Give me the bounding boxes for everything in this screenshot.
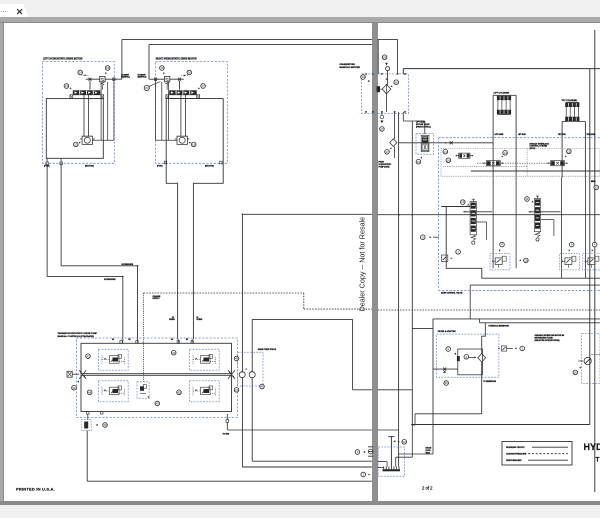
svg-text:B2: B2 bbox=[186, 339, 188, 341]
page 2 bbox=[378, 23, 600, 502]
svg-text:(FRONT & PWLL): (FRONT & PWLL) bbox=[416, 126, 431, 128]
arrowhead to charge relief bbox=[148, 396, 150, 398]
servo piston glyph bbox=[102, 354, 125, 364]
relief valve arrow bbox=[166, 78, 169, 80]
svg-text:16: 16 bbox=[447, 158, 451, 162]
arrowhead to orifice bbox=[84, 75, 86, 77]
svg-text:CHARGE PRESSURE: CHARGE PRESSURE bbox=[506, 453, 527, 456]
svg-text:34: 34 bbox=[361, 75, 365, 79]
circle 9 relief callout bbox=[500, 242, 505, 247]
circle 40 charge relief callout bbox=[155, 401, 160, 406]
tilt port relief b bbox=[583, 254, 600, 270]
svg-text:33: 33 bbox=[145, 86, 149, 90]
charge supply dashed line bbox=[144, 292, 304, 294]
svg-text:MANIFOLD: MANIFOLD bbox=[121, 76, 131, 79]
gear pump dashed box bbox=[238, 352, 263, 386]
port square MOTOR right bbox=[220, 161, 222, 164]
svg-text:47: 47 bbox=[235, 388, 239, 392]
gear pump circle 2 bbox=[249, 372, 255, 378]
case wire a bbox=[167, 82, 169, 140]
lift port relief valve bbox=[490, 254, 510, 270]
pump bottom port 2 bbox=[101, 412, 103, 415]
right hydrostatic drive motor assembly bbox=[149, 44, 227, 339]
circle 36 suction callout bbox=[444, 381, 449, 386]
svg-text:W/34: W/34 bbox=[426, 451, 430, 454]
gear pump 2 out arrow bbox=[251, 370, 253, 372]
circle 14 lift solenoid callout bbox=[503, 151, 508, 156]
valve gallery lowest bbox=[470, 284, 600, 286]
charge relief dashed box bbox=[137, 382, 149, 398]
svg-text:10: 10 bbox=[524, 259, 528, 263]
tab title dots bbox=[1, 11, 8, 13]
svg-text:(MOTOR): (MOTOR) bbox=[205, 166, 214, 168]
manifold port marks bbox=[365, 73, 367, 75]
hose port circle bbox=[386, 67, 390, 71]
lift spool bbox=[470, 199, 476, 240]
svg-text:ORIFICE/BLEED: ORIFICE/BLEED bbox=[506, 460, 522, 462]
wire port into manifold bbox=[387, 70, 389, 85]
arrowhead to orifice bbox=[184, 75, 186, 77]
bypass solenoid dotted sub-edge bbox=[443, 165, 527, 167]
gear pump drive X bbox=[228, 370, 235, 379]
circle 42 front pump servo callout bbox=[86, 354, 91, 359]
toolbar strip bbox=[0, 17, 600, 22]
circle 34 manifold callout bbox=[361, 75, 366, 80]
svg-text:19: 19 bbox=[160, 66, 164, 70]
circle 5 filter callout bbox=[446, 347, 451, 352]
arrowhead to rear pump servo bbox=[196, 358, 198, 360]
svg-text:16: 16 bbox=[192, 143, 196, 147]
svg-text:LIFT BASE: LIFT BASE bbox=[495, 133, 505, 136]
manifold dashed enclosure bbox=[362, 74, 409, 114]
svg-text:44: 44 bbox=[88, 390, 92, 394]
svg-text:17: 17 bbox=[201, 84, 205, 88]
svg-text:15: 15 bbox=[417, 160, 421, 164]
main feed wire across valve bbox=[378, 214, 600, 216]
motor drain wire bbox=[156, 139, 177, 141]
svg-text:LEFT HYDROSTATIC DRIVE MOTOR: LEFT HYDROSTATIC DRIVE MOTOR bbox=[43, 57, 83, 60]
circle 11 spool callout bbox=[525, 197, 530, 202]
svg-text:Dealer Copy -- Not for Resale: Dealer Copy -- Not for Resale bbox=[358, 217, 367, 312]
reservoir corner wire bbox=[432, 319, 434, 425]
page divider bbox=[372, 23, 378, 502]
circle 30 filter callout bbox=[394, 80, 399, 85]
svg-text:50: 50 bbox=[403, 440, 407, 444]
branch to reservoir corner bbox=[412, 327, 433, 329]
gear pump circle 1 bbox=[239, 372, 245, 378]
drain plug tee bbox=[390, 437, 392, 467]
svg-text:MANUAL CONTROLS (STANDARD): MANUAL CONTROLS (STANDARD) bbox=[58, 335, 95, 338]
arrowhead to bypass bbox=[420, 157, 422, 159]
manifold comb teeth bbox=[383, 466, 385, 469]
tilt spool bbox=[534, 196, 540, 237]
page2 left long wires bbox=[398, 112, 400, 467]
circle 7 bbox=[456, 250, 461, 255]
circle 19 relief valve callout bbox=[160, 66, 165, 71]
servo piston glyph bbox=[193, 386, 216, 396]
leader line circle 33 bbox=[149, 82, 160, 87]
bypass valve at divider edge bbox=[377, 86, 380, 92]
right motor dashed enclosure bbox=[156, 62, 228, 164]
case wire c bbox=[155, 79, 157, 140]
case drain wires below gear pump bbox=[241, 378, 243, 467]
svg-text:46: 46 bbox=[260, 385, 264, 389]
svg-text:TILT CYLINDER: TILT CYLINDER bbox=[562, 100, 578, 102]
svg-text:HYD: HYD bbox=[584, 442, 600, 452]
pump top port C bbox=[177, 341, 179, 344]
drain manifold dashed box bbox=[378, 447, 404, 476]
servo piston glyph bbox=[102, 386, 125, 396]
circle 26 fan callout bbox=[573, 370, 578, 375]
circle 44 front pump callout bbox=[87, 390, 92, 395]
browser tab bar bbox=[0, 0, 600, 17]
orifice symbol bbox=[89, 78, 92, 81]
circle 50 drain plug callout bbox=[402, 440, 407, 445]
trunnion input square bbox=[67, 371, 72, 377]
tilt rod leg bbox=[561, 122, 563, 178]
circle 21 valve bank callout bbox=[64, 84, 69, 89]
motor body outline + supply legs to pump bbox=[166, 98, 223, 339]
wire bypass to lift leg bbox=[424, 121, 426, 134]
spool drain port bbox=[472, 241, 475, 244]
fan motor dashed box bbox=[582, 333, 600, 383]
svg-text:TILT ROD: TILT ROD bbox=[558, 134, 566, 136]
manifold drain port with plug bbox=[380, 115, 384, 119]
circle 41 trunnion callout bbox=[72, 385, 77, 390]
svg-text:11: 11 bbox=[525, 197, 528, 201]
valve interior wire tilt b bbox=[585, 178, 587, 279]
wire orifice down to valve bank bbox=[179, 81, 181, 90]
arrowhead to rear pump bbox=[196, 389, 198, 391]
big outer reservoir box page2 bbox=[403, 68, 600, 70]
staircase from filter bbox=[415, 413, 482, 415]
trunnion arrow b bbox=[83, 376, 85, 378]
circle 15 bypass callout bbox=[416, 159, 421, 164]
inlet check glyph bbox=[441, 255, 447, 261]
orifice X on suction bbox=[443, 368, 446, 371]
relief valve body bbox=[100, 76, 105, 81]
trunnion link wire bbox=[72, 373, 79, 375]
motor drain wire bbox=[93, 139, 114, 141]
relief valve spring bbox=[101, 82, 104, 86]
brake/loop flush valve bank bbox=[73, 90, 101, 95]
wire down to manifold bbox=[397, 39, 399, 74]
lift base leg lower bbox=[492, 143, 494, 178]
tilt base leg bbox=[584, 122, 586, 178]
circle 12 tilt solenoid callout bbox=[567, 149, 572, 154]
wire orifice down to valve bank bbox=[89, 81, 91, 90]
circle 20 shuttle valve callout bbox=[187, 70, 192, 75]
browser tab bbox=[0, 4, 23, 17]
svg-text:20: 20 bbox=[188, 71, 192, 75]
front pump servo dashed box bbox=[99, 349, 129, 370]
second bus wire from right motor to page edge bbox=[149, 43, 372, 45]
orifice symbol bbox=[178, 78, 181, 81]
pump dashed enclosure bbox=[76, 338, 237, 418]
circle 28 return port callout bbox=[382, 55, 387, 60]
sample port circle 2 bbox=[355, 450, 360, 455]
svg-text:36: 36 bbox=[445, 381, 449, 385]
circle 39 screen callout bbox=[103, 423, 108, 428]
gear pump 1 out arrow bbox=[241, 370, 243, 372]
page1 case drain entry a bbox=[378, 461, 388, 463]
arrowhead to front pump servo bbox=[105, 358, 107, 360]
case drain motor symbol bbox=[175, 136, 190, 144]
circle 24 shuttle valve callout bbox=[78, 70, 83, 75]
svg-text:HI PRESSURE: HI PRESSURE bbox=[104, 279, 116, 281]
svg-text:42: 42 bbox=[86, 354, 90, 358]
TO RES port and wire bbox=[226, 420, 229, 423]
pump solid housing bbox=[81, 343, 232, 411]
svg-text:(FOR): (FOR) bbox=[157, 166, 163, 168]
relief valve body bbox=[164, 76, 169, 81]
arrowhead at drain plug bbox=[393, 440, 395, 442]
left motor dashed enclosure bbox=[43, 62, 115, 164]
wire diamond to housing bottom bbox=[481, 362, 483, 375]
port relief solenoid valve left bbox=[456, 153, 474, 158]
sheet border right bbox=[594, 30, 596, 492]
svg-text:(SELECTED SPECIFICATION): (SELECTED SPECIFICATION) bbox=[535, 339, 560, 342]
svg-text:TO RESERVOIR: TO RESERVOIR bbox=[483, 381, 496, 383]
svg-text:37: 37 bbox=[385, 150, 389, 154]
port square left motor out bbox=[113, 78, 115, 81]
svg-text:39: 39 bbox=[103, 423, 107, 427]
arrowhead to trunnion bbox=[77, 381, 79, 383]
left motor supply lines down to pump bbox=[46, 165, 48, 277]
motor body outline bbox=[46, 99, 103, 159]
svg-text:PRESS: PRESS bbox=[169, 319, 176, 321]
case drain motor symbol bbox=[80, 136, 95, 144]
riser wire to top bus bbox=[121, 39, 123, 79]
fan motor feed valve bbox=[501, 346, 506, 351]
wire bank to motor 2 bbox=[88, 95, 90, 137]
svg-text:30: 30 bbox=[395, 80, 399, 84]
valve to reservoir wire bbox=[469, 285, 471, 319]
circle 45 rear pump callout bbox=[177, 390, 182, 395]
svg-text:TO RES: TO RES bbox=[223, 434, 230, 436]
trunnion axis shaft bbox=[83, 373, 232, 375]
orifice X on bypass wire bbox=[450, 141, 453, 144]
staircase s2 drop bbox=[411, 425, 413, 457]
wire valve to bank bbox=[166, 86, 168, 90]
circle 16 motor callout bbox=[191, 142, 196, 147]
valve box left/bottom boundary bbox=[441, 207, 600, 279]
quick coupler glyph bbox=[368, 449, 373, 454]
arrowhead to front pump bbox=[105, 389, 107, 391]
vent triangle up bbox=[443, 371, 446, 373]
brake/loop flush valve bank bbox=[169, 90, 197, 95]
rear pump servo dashed box bbox=[190, 349, 220, 370]
svg-text:MANIFOLD W/FILTER: MANIFOLD W/FILTER bbox=[340, 66, 361, 69]
valve body with spring end caps bbox=[166, 95, 200, 99]
circle 27 vent callout bbox=[380, 127, 385, 132]
svg-text:B1: B1 bbox=[129, 339, 131, 341]
legend box bbox=[502, 442, 572, 466]
valve interior wire tilt a bbox=[561, 178, 563, 279]
svg-text:14: 14 bbox=[503, 151, 507, 155]
trunnion pivot X bbox=[79, 370, 86, 379]
wire bank to motor 2 bbox=[180, 95, 182, 137]
circle 8 bbox=[421, 235, 426, 240]
svg-text:A1: A1 bbox=[112, 338, 114, 341]
lift base leg upper bbox=[492, 95, 494, 143]
port square FOR bbox=[46, 162, 48, 165]
check diamond bbox=[390, 139, 397, 147]
svg-text:14: 14 bbox=[444, 150, 448, 154]
svg-text:24: 24 bbox=[79, 71, 83, 75]
svg-text:TILT BASE: TILT BASE bbox=[587, 133, 596, 136]
circle 48 bbox=[234, 356, 239, 361]
circle 33 hose callout bbox=[144, 85, 149, 90]
circle 4 bypass callout bbox=[464, 355, 469, 360]
svg-text:26: 26 bbox=[574, 371, 578, 375]
circle 43 rear pump servo callout bbox=[171, 350, 176, 355]
svg-text:GEAR PUMP STACK: GEAR PUMP STACK bbox=[258, 348, 277, 351]
pump top port A bbox=[120, 341, 122, 344]
case wire c bbox=[113, 79, 115, 140]
charge dashed drop to pump bbox=[143, 293, 145, 382]
servo piston glyph bbox=[193, 354, 216, 364]
spool bridge wires bbox=[463, 211, 492, 213]
pilot dashed lines bbox=[477, 162, 486, 164]
page1 case drain entry b bbox=[378, 466, 384, 468]
svg-text:13: 13 bbox=[461, 200, 465, 204]
arrowhead to screen bbox=[96, 424, 98, 426]
filter element bbox=[457, 356, 460, 361]
case drain screen dashed box bbox=[81, 420, 91, 431]
bypass dashed box bbox=[416, 134, 434, 155]
circle 6 relief callout bbox=[569, 242, 574, 247]
oil filter dashed box bbox=[437, 334, 499, 377]
arrowhead callout to valve bbox=[105, 72, 107, 74]
wire filter to manifold bottom bbox=[386, 94, 388, 112]
page 1 bbox=[4, 23, 372, 502]
case wire b bbox=[161, 82, 163, 140]
relief valve spring bbox=[166, 82, 169, 86]
BICS dashed enclosure bbox=[439, 137, 600, 139]
filter diamond in manifold bbox=[382, 84, 391, 93]
svg-text:TANDEM HYDROSTATIC DRIVE PUMP: TANDEM HYDROSTATIC DRIVE PUMP bbox=[58, 332, 98, 335]
svg-text:48: 48 bbox=[235, 357, 239, 361]
relief valve arrow bbox=[101, 78, 104, 80]
circle 4 relief callout bbox=[592, 242, 597, 247]
junction dots bbox=[242, 214, 244, 216]
svg-text:MANIFOLD: MANIFOLD bbox=[138, 76, 148, 79]
circle 16 bbox=[446, 158, 451, 163]
circle 3 callout bbox=[520, 346, 525, 351]
svg-text:DRAIN/RETURN: DRAIN/RETURN bbox=[340, 63, 356, 66]
pump top port B bbox=[136, 341, 138, 344]
filter housing box bbox=[458, 349, 483, 375]
svg-text:27: 27 bbox=[380, 127, 384, 131]
svg-text:PRINTED IN U.S.A.: PRINTED IN U.S.A. bbox=[16, 486, 55, 491]
rear pump dashed box bbox=[190, 381, 220, 402]
wire valve out to riser bbox=[149, 78, 164, 80]
svg-text:HI PRESSURE: HI PRESSURE bbox=[122, 264, 134, 266]
tab close icon bbox=[16, 8, 24, 16]
lift rod leg bbox=[515, 95, 517, 177]
wire filter to staircase bbox=[481, 375, 483, 414]
svg-text:MAIN: MAIN bbox=[591, 180, 596, 183]
svg-text:45: 45 bbox=[177, 390, 181, 394]
vent triangle bbox=[380, 121, 383, 124]
valve interior wire lift rod bbox=[515, 178, 517, 269]
circle 23 motor callout bbox=[74, 142, 79, 147]
svg-text:T: T bbox=[596, 457, 600, 464]
svg-text:35: 35 bbox=[595, 186, 599, 190]
check valve below manifold bbox=[394, 112, 396, 139]
gear pump pressure wire riser to page 2 bbox=[241, 214, 243, 371]
wire orifice to relief valve bbox=[86, 78, 100, 80]
feed jog from reservoir line bbox=[482, 323, 486, 354]
svg-text:28: 28 bbox=[383, 55, 387, 59]
viewer left margin bbox=[0, 23, 3, 502]
svg-text:A2: A2 bbox=[171, 338, 173, 341]
circle 35 bbox=[594, 185, 599, 190]
svg-text:(MOTOR): (MOTOR) bbox=[85, 166, 94, 168]
trunnion arrow a bbox=[80, 371, 82, 373]
valve body with spring end caps bbox=[70, 95, 104, 99]
svg-text:FILTER & ADAPTER: FILTER & ADAPTER bbox=[438, 330, 457, 333]
case wire a bbox=[100, 82, 102, 140]
svg-text:21: 21 bbox=[65, 84, 69, 88]
wire page2 edge riser bbox=[377, 39, 379, 74]
arrowhead callout to bank bbox=[198, 87, 200, 89]
svg-text:MAIN CONTROL VALVE: MAIN CONTROL VALVE bbox=[441, 292, 463, 295]
second gear pump wire with jog bbox=[251, 319, 253, 371]
sample port circle 1 bbox=[361, 472, 366, 477]
left hydrostatic drive motor assembly bbox=[43, 39, 122, 167]
wire valve out to riser bbox=[105, 78, 122, 80]
arrowhead down to port bbox=[385, 63, 388, 66]
svg-text:HYDRAULIC RESERVOIR: HYDRAULIC RESERVOIR bbox=[489, 325, 510, 328]
svg-text:WORKING CIRCUIT: WORKING CIRCUIT bbox=[506, 447, 525, 449]
svg-text:43: 43 bbox=[172, 351, 176, 355]
bottom area below pages bbox=[0, 505, 600, 518]
wire bank to motor bbox=[83, 95, 85, 137]
svg-text:PUMP (CHG): PUMP (CHG) bbox=[379, 166, 390, 168]
dotted divider bbox=[526, 149, 528, 177]
svg-text:40: 40 bbox=[156, 402, 160, 406]
valve interior wire lift base bbox=[492, 178, 494, 269]
wire orifice to relief valve bbox=[170, 78, 184, 80]
riser wire to top bus bbox=[148, 44, 150, 79]
svg-text:41: 41 bbox=[72, 386, 76, 390]
circle 18 relief valve callout bbox=[105, 66, 110, 71]
tilt port relief a bbox=[560, 254, 580, 270]
lift lock solenoid valve bbox=[483, 161, 503, 166]
circle 17 valve bank callout bbox=[201, 84, 206, 89]
svg-text:12: 12 bbox=[567, 149, 571, 153]
svg-text:LIFT CYLINDER: LIFT CYLINDER bbox=[494, 93, 510, 95]
page top shadow line bbox=[0, 22, 600, 23]
pilot dash wire bbox=[82, 74, 89, 76]
svg-text:2 of 2: 2 of 2 bbox=[422, 486, 433, 491]
pump bottom port case bbox=[87, 412, 89, 415]
svg-text:RIGHT HYDROSTATIC DRIVE MOTOR: RIGHT HYDROSTATIC DRIVE MOTOR bbox=[156, 57, 197, 60]
arrowhead callout to bank bbox=[69, 87, 71, 89]
svg-text:23: 23 bbox=[74, 143, 78, 147]
arrowhead callout to motor bbox=[189, 142, 191, 144]
circle 37 check callout bbox=[385, 150, 390, 155]
pump top port D bbox=[191, 341, 193, 344]
manifold comb base bbox=[383, 469, 401, 471]
circle 46 bbox=[260, 384, 265, 389]
arrowhead callout to valve bbox=[163, 72, 165, 74]
port square MOTOR bbox=[60, 162, 62, 165]
port square right motor out bbox=[154, 78, 156, 81]
wire bank to motor bbox=[185, 95, 187, 137]
